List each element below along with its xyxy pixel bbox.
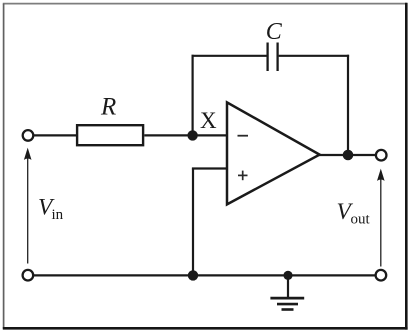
wire: feedback left vertical from node X up — [192, 55, 194, 136]
label Vin — [38, 195, 64, 224]
svg-text:X: X — [200, 108, 217, 133]
ground symbol — [270, 298, 304, 309]
input terminal (bottom left) — [23, 270, 34, 281]
op-amp U1 — [227, 102, 320, 204]
resistor R — [77, 125, 143, 145]
label Vout — [337, 199, 371, 228]
wire: non-inverting input vertical to ground rail — [192, 169, 194, 276]
junction dot at ground tap — [283, 271, 292, 280]
Vin arrow — [24, 148, 32, 264]
svg-text:R: R — [100, 94, 116, 121]
input terminal (top left) — [23, 130, 34, 141]
wire: non-inverting input stub — [192, 167, 228, 169]
node X junction dot — [187, 130, 197, 140]
Vout arrow — [377, 169, 385, 267]
op-amp minus sign — [238, 135, 249, 137]
wire: ground stub — [287, 275, 289, 298]
svg-text:C: C — [266, 19, 283, 45]
wire: bottom ground rail — [34, 274, 375, 276]
junction dot at non-inverting rail connection — [188, 270, 198, 280]
output terminal (bottom right) — [376, 270, 387, 281]
svg-text:out: out — [351, 212, 371, 228]
capacitor C — [268, 43, 278, 72]
junction dot at output feedback tap — [343, 150, 354, 161]
wire: resistor to op-amp inverting input through node X — [144, 134, 228, 136]
wire: top feedback horizontal right of capacitor — [279, 55, 350, 57]
wire: top feedback horizontal left of capacitor — [192, 55, 267, 57]
output terminal (top right) — [376, 150, 387, 161]
wire: op-amp output to right terminal — [318, 154, 375, 156]
wire: feedback right vertical down to output — [347, 55, 349, 155]
svg-text:in: in — [52, 207, 64, 223]
wire: input terminal to resistor — [34, 134, 78, 136]
op-amp plus sign — [238, 171, 248, 181]
